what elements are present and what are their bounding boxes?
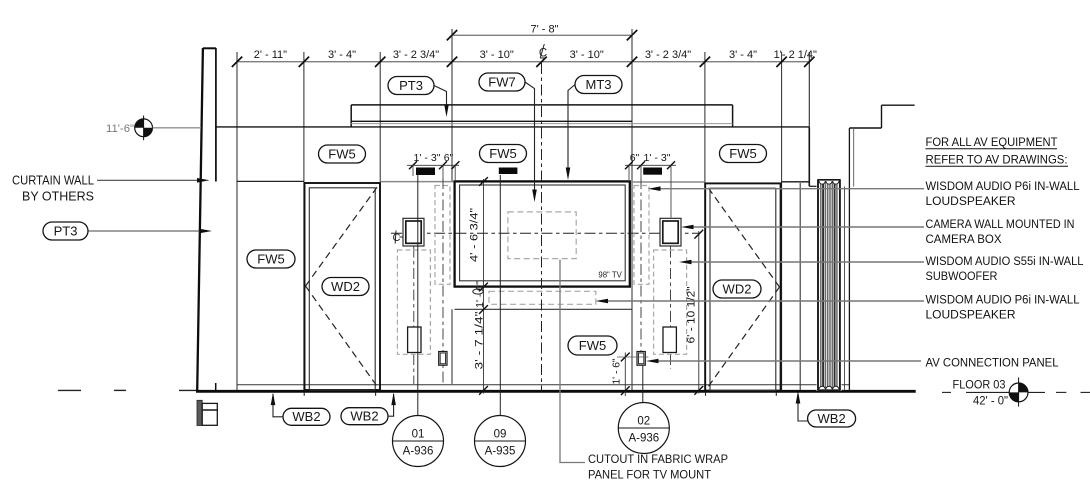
svg-text:FW5: FW5 — [328, 146, 355, 161]
svg-text:A-935: A-935 — [485, 446, 516, 458]
svg-text:3' - 2 3/4": 3' - 2 3/4" — [645, 49, 691, 61]
svg-text:1' - 0": 1' - 0" — [474, 281, 486, 308]
svg-text:42' - 0": 42' - 0" — [973, 393, 1008, 407]
svg-text:WISDOM AUDIO S55i IN-WALL: WISDOM AUDIO S55i IN-WALL — [926, 254, 1084, 268]
svg-text:2' - 11": 2' - 11" — [254, 49, 287, 61]
svg-text:FW5: FW5 — [729, 146, 756, 161]
svg-text:SUBWOOFER: SUBWOOFER — [926, 269, 998, 283]
svg-text:LOUDSPEAKER: LOUDSPEAKER — [926, 194, 1016, 208]
svg-text:WB2: WB2 — [818, 411, 846, 426]
svg-text:FOR ALL AV EQUIPMENT: FOR ALL AV EQUIPMENT — [926, 135, 1058, 149]
svg-text:WD2: WD2 — [723, 281, 752, 296]
svg-text:6' - 10 1/2": 6' - 10 1/2" — [686, 286, 698, 343]
svg-text:1'- 2 1/4": 1'- 2 1/4" — [774, 49, 817, 61]
svg-text:MT3: MT3 — [586, 77, 612, 92]
svg-text:CAMERA WALL MOUNTED IN: CAMERA WALL MOUNTED IN — [926, 217, 1075, 231]
svg-text:WB2: WB2 — [350, 409, 378, 424]
svg-text:A-936: A-936 — [628, 433, 659, 445]
svg-text:11'-6": 11'-6" — [106, 123, 134, 135]
svg-text:3' - 7 1/4": 3' - 7 1/4" — [474, 311, 486, 369]
svg-text:1' - 6": 1' - 6" — [611, 358, 623, 384]
svg-text:FW5: FW5 — [257, 251, 284, 266]
svg-text:A-936: A-936 — [403, 446, 434, 458]
svg-text:1' - 3": 1' - 3" — [644, 152, 671, 164]
svg-text:REFER TO AV DRAWINGS:: REFER TO AV DRAWINGS: — [926, 153, 1068, 167]
svg-text:BY OTHERS: BY OTHERS — [22, 190, 94, 204]
svg-text:PT3: PT3 — [399, 78, 423, 93]
svg-text:FW5: FW5 — [489, 146, 516, 161]
svg-text:6": 6" — [630, 152, 640, 164]
svg-text:CURTAIN WALL: CURTAIN WALL — [12, 174, 94, 188]
svg-text:3' - 4": 3' - 4" — [328, 49, 356, 61]
svg-text:7' - 8": 7' - 8" — [530, 24, 558, 36]
svg-text:FLOOR 03: FLOOR 03 — [953, 377, 1006, 391]
svg-text:02: 02 — [637, 416, 650, 428]
svg-text:CAMERA BOX: CAMERA BOX — [926, 232, 1002, 246]
svg-text:PT3: PT3 — [54, 223, 78, 238]
svg-text:CUTOUT IN FABRIC WRAP: CUTOUT IN FABRIC WRAP — [588, 452, 728, 466]
svg-text:PANEL FOR TV MOUNT: PANEL FOR TV MOUNT — [588, 468, 711, 482]
svg-text:FW7: FW7 — [488, 74, 515, 89]
svg-text:1' - 3": 1' - 3" — [414, 152, 441, 164]
svg-text:AV CONNECTION PANEL: AV CONNECTION PANEL — [926, 356, 1059, 370]
svg-text:3' - 10": 3' - 10" — [570, 49, 604, 61]
svg-text:WD2: WD2 — [331, 279, 360, 294]
svg-text:C: C — [393, 232, 401, 244]
svg-text:6": 6" — [444, 152, 454, 164]
svg-text:FW5: FW5 — [579, 338, 606, 353]
svg-text:WISDOM AUDIO P6i IN-WALL: WISDOM AUDIO P6i IN-WALL — [926, 179, 1080, 193]
svg-text:WISDOM AUDIO P6i IN-WALL: WISDOM AUDIO P6i IN-WALL — [926, 293, 1080, 307]
svg-text:3' - 4": 3' - 4" — [729, 49, 757, 61]
svg-text:LOUDSPEAKER: LOUDSPEAKER — [926, 308, 1016, 322]
svg-text:01: 01 — [412, 429, 425, 441]
svg-text:WB2: WB2 — [292, 409, 320, 424]
svg-text:09: 09 — [494, 429, 507, 441]
svg-text:3' - 10": 3' - 10" — [480, 49, 514, 61]
svg-text:4' - 6 3/4": 4' - 6 3/4" — [469, 208, 481, 262]
svg-text:98" TV: 98" TV — [598, 270, 622, 279]
svg-text:3' - 2 3/4": 3' - 2 3/4" — [393, 49, 439, 61]
